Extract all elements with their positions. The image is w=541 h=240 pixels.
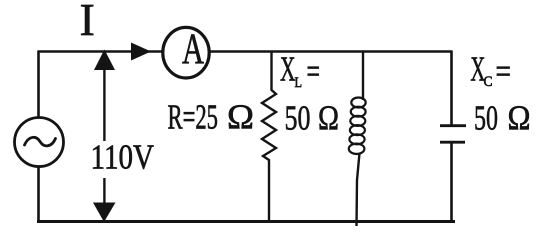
current arrow bbox=[131, 43, 151, 61]
svg-text:I: I bbox=[80, 0, 95, 45]
wire top bbox=[38, 50, 452, 53]
resistor R bbox=[262, 51, 276, 223]
label I bbox=[80, 0, 95, 45]
label XL= bbox=[280, 50, 320, 92]
label 110V bbox=[91, 139, 155, 177]
label XC= bbox=[470, 50, 511, 92]
svg-text:A: A bbox=[182, 26, 204, 73]
wire left bbox=[37, 51, 40, 223]
wire bottom bbox=[37, 220, 455, 223]
label 50 ohm XL bbox=[285, 99, 340, 138]
wire right bbox=[450, 51, 453, 223]
ammeter A1 bbox=[163, 26, 209, 78]
label R=25 ohm bbox=[168, 98, 255, 137]
svg-text:=: = bbox=[307, 52, 321, 91]
svg-text:50: 50 bbox=[285, 99, 311, 138]
svg-text:110V: 110V bbox=[91, 139, 155, 177]
svg-text:Ω: Ω bbox=[318, 99, 339, 138]
svg-text:50: 50 bbox=[474, 99, 498, 138]
inductor XL bbox=[349, 51, 366, 227]
capacitor XC bbox=[440, 126, 466, 143]
ac source V1 bbox=[15, 118, 64, 167]
svg-text:R=25: R=25 bbox=[168, 98, 219, 137]
label 50 ohm XC bbox=[474, 99, 531, 138]
voltage measure arrow bbox=[93, 50, 116, 223]
svg-text:X: X bbox=[280, 50, 296, 89]
svg-text:Ω: Ω bbox=[508, 99, 531, 138]
svg-text:=: = bbox=[496, 52, 512, 91]
svg-text:Ω: Ω bbox=[227, 98, 254, 137]
svg-text:C: C bbox=[484, 74, 493, 90]
svg-text:L: L bbox=[295, 75, 303, 91]
